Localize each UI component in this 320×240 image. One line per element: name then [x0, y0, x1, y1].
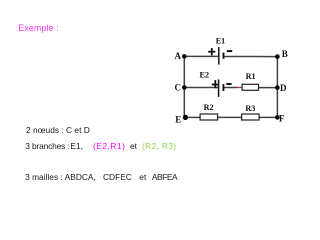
- svg-text:D: D: [280, 83, 287, 93]
- minus sign E1: [227, 50, 232, 52]
- node B: [275, 54, 280, 59]
- plus sign E1: [208, 48, 215, 55]
- wire red segment before R1: [237, 87, 242, 89]
- node F: [275, 115, 280, 120]
- wire right rail B-D-F: [276, 57, 278, 118]
- resistor R1: [242, 84, 258, 90]
- resistor R2: [200, 114, 218, 120]
- svg-text:E1: E1: [216, 37, 226, 46]
- battery E2: [219, 79, 224, 97]
- text line 3: [25, 172, 96, 182]
- svg-text:R2: R2: [204, 103, 214, 112]
- wire left rail A-C-E: [183, 56, 185, 117]
- svg-text:R1: R1: [246, 72, 256, 81]
- text line 2: [25, 141, 69, 151]
- text line 1: [26, 125, 90, 135]
- battery E1: [219, 47, 224, 65]
- node E: [183, 115, 188, 120]
- wire top A to E1: [184, 55, 218, 57]
- wire R3 to F: [259, 116, 277, 118]
- resistor R3: [242, 114, 260, 120]
- svg-text:E: E: [175, 115, 181, 125]
- wire R1 to D: [259, 87, 278, 89]
- svg-text:F: F: [279, 114, 285, 124]
- wire E1 to B: [223, 56, 277, 58]
- svg-text:R3: R3: [245, 104, 255, 113]
- svg-text:E2: E2: [200, 70, 210, 79]
- wire C to E2: [184, 87, 218, 89]
- svg-text:A: A: [174, 51, 181, 61]
- plus sign E2: [212, 80, 219, 88]
- node C: [182, 85, 187, 90]
- wire R2 to R3: [218, 116, 242, 118]
- svg-text:C: C: [174, 82, 181, 92]
- minus sign E2: [226, 83, 231, 85]
- wire E2 toward R1: [223, 87, 237, 89]
- node D: [275, 85, 280, 90]
- title "Exemple :": [18, 23, 59, 33]
- wire E to R2: [185, 116, 200, 118]
- svg-text:B: B: [282, 49, 288, 59]
- node A: [182, 54, 187, 59]
